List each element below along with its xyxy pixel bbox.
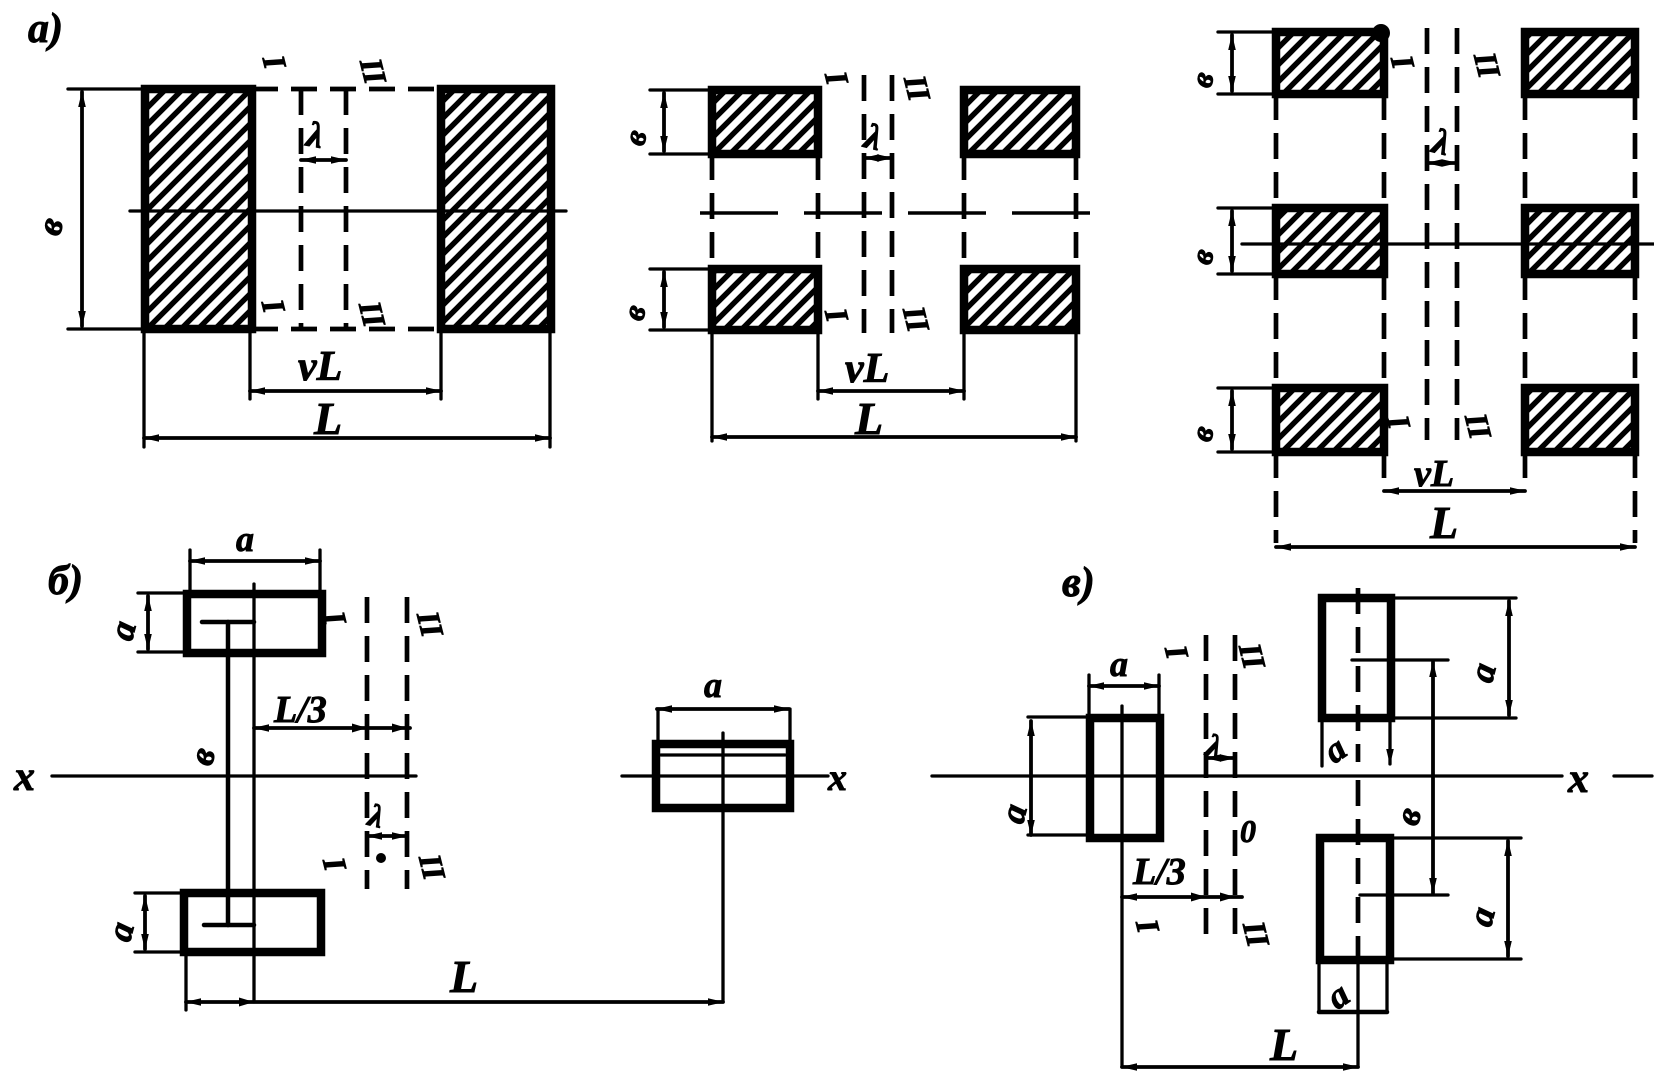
dashed edge line right col right bbox=[1074, 154, 1079, 269]
dimension b vertical line bbox=[80, 92, 84, 326]
dimension nuL line bbox=[1384, 489, 1525, 493]
footing R1 hatched row1 col1 bbox=[1276, 32, 1384, 94]
svg-text:в): в) bbox=[1062, 560, 1095, 606]
section line II-II dashed bbox=[1233, 635, 1238, 940]
dimension v between C2 and C3 bbox=[1431, 662, 1435, 893]
corner dot on R1 bbox=[1372, 24, 1390, 42]
ext line right bottom C2 bbox=[1391, 716, 1516, 719]
svg-text:νL: νL bbox=[1414, 453, 1454, 495]
footing F2 hatched rectangle right bbox=[441, 89, 551, 329]
dashed top line between footings bbox=[252, 87, 441, 92]
footing R6 hatched row3 col2 bbox=[1525, 388, 1635, 452]
svg-text:a: a bbox=[236, 519, 254, 559]
lambda dimension line bbox=[1427, 161, 1457, 165]
svg-text:L/3: L/3 bbox=[1132, 851, 1186, 893]
L/3 arrow at I line bbox=[1191, 893, 1206, 902]
ext below M3 left edge dashed bbox=[710, 330, 713, 441]
dashed edge col1 left segment2 bbox=[1274, 274, 1279, 388]
dimension nuL line bbox=[818, 389, 964, 393]
axis vertical of C1 bbox=[1120, 706, 1123, 1067]
pad P3 rectangle right bbox=[656, 744, 790, 808]
x axis right dash bbox=[1614, 774, 1652, 777]
dimension L line bbox=[1276, 545, 1635, 549]
ext lines b row2 bbox=[1218, 206, 1276, 209]
dimension L line bbox=[712, 435, 1076, 439]
dimension a top line bbox=[190, 559, 320, 563]
ext line center C3 bbox=[1360, 893, 1448, 896]
footing R4 hatched row2 col2 bbox=[1525, 208, 1635, 274]
section line I-I dashed bbox=[1204, 635, 1209, 940]
svg-text:x: x bbox=[1567, 756, 1589, 802]
svg-text:a: a bbox=[1110, 644, 1128, 684]
svg-text:L/3: L/3 bbox=[273, 689, 327, 731]
footing M2 hatched top-right bbox=[964, 90, 1076, 154]
axis dashed of C3 bbox=[1356, 780, 1361, 957]
L arrow at axis bbox=[239, 998, 254, 1007]
dashed edge line left col left bbox=[710, 154, 715, 269]
axis solid below C3 bbox=[1356, 957, 1359, 1067]
pad edge below C2 left bbox=[1320, 718, 1323, 766]
dimension a right of C3 bbox=[1506, 841, 1510, 956]
svg-text:L: L bbox=[449, 951, 478, 1002]
dimension b top rect vertical bbox=[662, 93, 666, 151]
footing R5 hatched row3 col1 bbox=[1276, 388, 1384, 452]
lambda dimension line bbox=[367, 834, 407, 838]
dashed bottom line between footings bbox=[252, 327, 441, 332]
extension line below F1 left edge bbox=[142, 329, 145, 447]
section line I-I dashed bbox=[299, 89, 304, 329]
svg-text:б): б) bbox=[48, 558, 83, 604]
dashed edge col1 left segment3 bbox=[1274, 452, 1279, 543]
lambda dimension line bbox=[1206, 756, 1235, 760]
section line I-I dashed bbox=[862, 75, 867, 333]
inner line of P3 bbox=[661, 753, 785, 756]
dot between section lines bbox=[376, 853, 386, 863]
dimension L/3 line bbox=[1122, 895, 1242, 899]
centerline through footings bbox=[130, 209, 566, 212]
extension line bottom for b bbox=[68, 327, 145, 330]
section line I-I dashed bbox=[365, 597, 370, 889]
ext line right top C3 bbox=[1390, 836, 1521, 839]
L/3 arrow at I line bbox=[352, 724, 367, 733]
dimension a left of P1 bbox=[146, 596, 150, 649]
x axis left segment bbox=[52, 774, 416, 777]
ext lines a top C1 bbox=[1087, 675, 1090, 718]
svg-text:νL: νL bbox=[845, 346, 889, 392]
ext below M4 left edge bbox=[962, 330, 965, 399]
dashed edge col2 left segment1 bbox=[1523, 94, 1528, 208]
dimension a left of C1 bbox=[1029, 721, 1033, 835]
lambda dimension line bbox=[864, 156, 892, 160]
footing M3 hatched bottom-left bbox=[712, 269, 818, 330]
lambda dimension line bbox=[301, 158, 346, 162]
dimension a over P3 bbox=[657, 707, 789, 711]
dimension L line bbox=[1122, 1065, 1358, 1069]
section line I-I dashed bbox=[1425, 28, 1430, 440]
centerline row2 horizontal bbox=[1242, 242, 1654, 245]
dimension L line bbox=[144, 436, 550, 440]
dimension a top of C1 bbox=[1089, 684, 1159, 688]
footing R2 hatched row1 col2 bbox=[1525, 32, 1635, 94]
column axis vertical bbox=[252, 584, 255, 1002]
dimension b row1 vertical bbox=[1230, 35, 1234, 91]
section line II-II dashed bbox=[1455, 28, 1460, 440]
dimension b row3 vertical bbox=[1230, 391, 1234, 449]
dimension b row2 vertical bbox=[1230, 211, 1234, 271]
extension line below F2 left edge bbox=[439, 329, 442, 399]
ext line right bottom C3 bbox=[1390, 957, 1521, 960]
column C2 rectangle right-top bbox=[1322, 598, 1391, 718]
pad edge line left top bbox=[1028, 715, 1090, 718]
ext lines b row3 bbox=[1218, 386, 1276, 389]
dimension a right of C2 bbox=[1507, 601, 1511, 715]
footing M1 hatched top-left bbox=[712, 90, 818, 154]
L/3 arrow at II line bbox=[392, 724, 407, 733]
svg-text:x: x bbox=[13, 754, 35, 800]
L/3 arrow at II line bbox=[1220, 893, 1235, 902]
pad edge below C3 right bbox=[1385, 960, 1388, 1012]
section line II-II dashed bbox=[890, 75, 895, 333]
column mark inside P1 bbox=[202, 620, 254, 625]
extension line top for b bbox=[68, 87, 145, 90]
pad P2 rectangle bottom bbox=[184, 893, 321, 952]
ext lines b bottom bbox=[650, 267, 712, 270]
footing M4 hatched bottom-right bbox=[964, 269, 1076, 330]
ext below P2 left edge bbox=[184, 952, 187, 1010]
dimension a left of P2 bbox=[143, 896, 147, 949]
svg-text:0: 0 bbox=[1240, 813, 1256, 849]
dashed edge col1 right segment1 bbox=[1382, 94, 1387, 208]
svg-text:L: L bbox=[313, 393, 342, 444]
svg-text:a): a) bbox=[28, 6, 63, 52]
dashed edge col1 left segment1 bbox=[1274, 94, 1279, 208]
section line II-II dashed bbox=[344, 89, 349, 329]
column shaft line bbox=[226, 622, 231, 925]
svg-text:a: a bbox=[704, 665, 722, 705]
column C3 rectangle right-bottom bbox=[1320, 838, 1390, 960]
ext lines a left P1 bbox=[138, 591, 187, 594]
section line II-II dashed bbox=[405, 597, 410, 889]
pad edge below C3 left bbox=[1317, 960, 1320, 1012]
centerline dashed horizontal bbox=[700, 211, 1092, 214]
footing F1 hatched rectangle left bbox=[145, 89, 252, 329]
ext lines a left P2 bbox=[135, 891, 184, 894]
pad edge below C2 right with arrow bbox=[1388, 718, 1391, 764]
svg-text:L: L bbox=[854, 393, 883, 444]
dashed edge col2 left segment3 bbox=[1523, 452, 1528, 487]
dimension L line bbox=[186, 1000, 723, 1004]
pad P1 rectangle top bbox=[187, 594, 322, 653]
svg-text:L: L bbox=[1269, 1019, 1298, 1070]
axis vertical of P3 bbox=[721, 733, 724, 1002]
dimension L/3 line bbox=[254, 726, 410, 730]
svg-text:νL: νL bbox=[298, 344, 342, 390]
svg-text:x: x bbox=[827, 757, 847, 799]
footing R3 hatched row2 col1 bbox=[1276, 208, 1384, 274]
dashed edge line left col right bbox=[816, 154, 821, 269]
dashed edge col2 left segment2 bbox=[1523, 274, 1528, 388]
dashed edge col2 right segment1 bbox=[1633, 94, 1638, 208]
pad edge line left bottom bbox=[1028, 833, 1090, 836]
axis dashed of C2 bbox=[1356, 588, 1361, 762]
column C1 rectangle left bbox=[1090, 718, 1160, 838]
ext line center C2 bbox=[1352, 658, 1448, 661]
x axis of figure v bbox=[932, 774, 1562, 777]
ext lines b row1 bbox=[1218, 30, 1276, 33]
dashed edge col1 right segment3 bbox=[1382, 452, 1387, 487]
ext lines b top bbox=[650, 88, 712, 91]
dashed edge line right col left bbox=[962, 154, 967, 269]
pad edge below C3 bottom bbox=[1319, 1010, 1387, 1015]
ext lines a top bbox=[188, 550, 191, 594]
x axis through P3 bbox=[622, 774, 828, 777]
dimension nuL line bbox=[250, 389, 441, 393]
ext below M4 right edge dashed bbox=[1074, 330, 1077, 441]
extension line below F2 right edge bbox=[548, 329, 551, 447]
svg-text:L: L bbox=[1429, 497, 1458, 548]
ext below M3 right edge bbox=[816, 330, 819, 399]
extension line below F1 right edge bbox=[248, 329, 251, 399]
ext line right top C2 bbox=[1391, 596, 1516, 599]
ext lines a over P3 bbox=[656, 709, 659, 746]
dashed edge col2 right segment2 bbox=[1633, 274, 1638, 388]
dashed edge col2 right segment3 bbox=[1633, 452, 1638, 543]
dimension b bottom rect vertical bbox=[662, 272, 666, 327]
column mark inside P2 bbox=[204, 923, 254, 928]
dashed edge col1 right segment2 bbox=[1382, 274, 1387, 388]
